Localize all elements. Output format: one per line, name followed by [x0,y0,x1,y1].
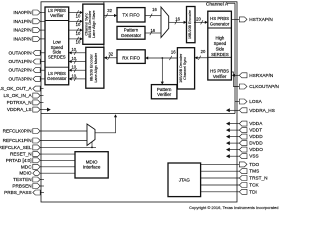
svg-text:OUTA2P/N: OUTA2P/N [8,68,31,73]
svg-text:10: 10 [76,40,81,45]
svg-text:PRTAD [4:0]: PRTAD [4:0] [6,158,32,163]
svg-text:Lane Align Slave: Lane Align Slave [92,10,96,37]
svg-text:Verifier: Verifier [213,74,227,79]
svg-text:Interface: Interface [83,165,101,170]
svg-text:Verifier: Verifier [50,13,64,18]
svg-text:INA2P/N: INA2P/N [13,28,31,33]
svg-text:VSS: VSS [249,154,258,159]
svg-text:VDDT: VDDT [249,128,262,133]
svg-text:10: 10 [71,56,76,61]
svg-text:VDDA: VDDA [249,121,263,126]
svg-text:Generator: Generator [121,33,142,38]
svg-text:HS PRBS: HS PRBS [210,16,229,21]
svg-text:32: 32 [107,8,112,13]
svg-text:Low: Low [53,40,62,45]
svg-text:16: 16 [171,50,176,55]
svg-text:LS PRBS: LS PRBS [48,71,66,76]
svg-text:REFCLK1P/N: REFCLK1P/N [3,138,32,143]
svg-text:10: 10 [76,22,81,27]
svg-text:TESTEN: TESTEN [13,177,32,182]
svg-text:CLKOUTAP/N: CLKOUTAP/N [249,84,279,89]
svg-text:INA1P/N: INA1P/N [13,19,31,24]
svg-text:VDDRA_HS: VDDRA_HS [249,108,275,113]
svg-text:Channel A: Channel A [206,2,229,8]
svg-text:VDDRA_LS: VDDRA_LS [7,107,32,112]
svg-text:32: 32 [108,51,113,56]
svg-text:TRST_N: TRST_N [249,176,267,181]
svg-text:HSRXAP/N: HSRXAP/N [249,73,273,78]
svg-text:SERDES: SERDES [211,52,229,57]
svg-text:LOSA: LOSA [249,99,262,104]
svg-text:MDC: MDC [21,164,32,169]
svg-text:Copyright © 2016, Texas Instru: Copyright © 2016, Texas Instruments Inco… [189,205,278,210]
svg-text:16: 16 [152,7,157,12]
svg-text:Side: Side [216,46,225,51]
svg-text:OUTA3P/N: OUTA3P/N [8,76,31,81]
svg-text:OUTA0P/N: OUTA0P/N [8,50,31,55]
svg-text:16B/20B Encoder: 16B/20B Encoder [188,9,192,39]
svg-text:TCK: TCK [249,183,259,188]
svg-text:VDDD: VDDD [249,134,263,139]
svg-text:TDI: TDI [249,189,257,194]
svg-text:16: 16 [175,17,180,22]
svg-text:Generator: Generator [47,76,67,81]
svg-text:Lane Align Master: Lane Align Master [94,52,98,82]
svg-text:10: 10 [71,65,76,70]
svg-text:DVDD: DVDD [249,141,263,146]
svg-text:10: 10 [71,47,76,52]
svg-text:TDO: TDO [249,162,259,167]
svg-text:MDIO: MDIO [86,159,98,164]
svg-text:10: 10 [76,31,81,36]
svg-text:16: 16 [150,28,155,33]
svg-text:LS_OK_IN_A: LS_OK_IN_A [3,93,32,98]
svg-text:INA3P/N: INA3P/N [13,36,31,41]
svg-text:Channel Sync: Channel Sync [183,57,187,80]
svg-text:REFCLK0P/N: REFCLK0P/N [3,129,32,134]
svg-text:LS_OK_OUT_A: LS_OK_OUT_A [0,86,32,91]
svg-text:HSTXAP/N: HSTXAP/N [249,17,272,22]
svg-text:10: 10 [76,13,81,18]
svg-text:INA0P/N: INA0P/N [13,10,31,15]
svg-text:JTAG: JTAG [179,177,191,182]
svg-text:MDIO: MDIO [19,171,32,176]
svg-text:Generator: Generator [210,22,230,27]
svg-text:20: 20 [201,49,206,54]
svg-text:RX FIFO: RX FIFO [122,55,140,60]
svg-text:20: 20 [196,16,201,21]
svg-text:Speed: Speed [214,41,227,46]
svg-text:PRBSEN: PRBSEN [12,184,31,189]
svg-text:TX FIFO: TX FIFO [122,12,140,17]
svg-text:PRBS_PASS: PRBS_PASS [4,190,32,195]
svg-text:TMS: TMS [249,169,259,174]
svg-text:High: High [215,35,224,40]
svg-text:SERDES: SERDES [48,55,66,60]
svg-text:RESET_N: RESET_N [10,152,32,157]
svg-text:Verifier: Verifier [157,92,172,97]
svg-text:PDTRXA_N: PDTRXA_N [7,100,32,105]
svg-text:REFCLKA_SEL: REFCLKA_SEL [0,145,32,150]
svg-text:OUTA1P/N: OUTA1P/N [8,59,31,64]
svg-text:10: 10 [71,73,76,78]
svg-text:VDDO: VDDO [249,147,263,152]
